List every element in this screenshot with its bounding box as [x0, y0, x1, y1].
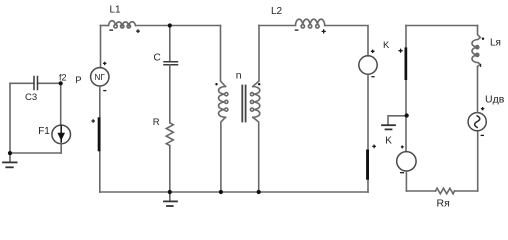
plus NG	[103, 62, 106, 65]
transformer core	[242, 86, 245, 122]
source K (circuit3)	[397, 152, 416, 171]
plus K2	[371, 49, 375, 53]
current source F1	[52, 125, 71, 144]
svg-text:Rя: Rя	[437, 197, 450, 209]
bar (selected wire) circuit2	[366, 150, 369, 180]
node transformer right bottom	[257, 190, 261, 194]
resistor Rya	[436, 188, 455, 194]
svg-text:n: n	[236, 70, 242, 82]
wire C branch upper	[169, 26, 171, 62]
circuit3 left side wire	[405, 26, 407, 152]
resistor R	[166, 123, 173, 146]
transformer right stub	[253, 26, 259, 87]
svg-text:C3: C3	[25, 92, 37, 103]
wire NG to bar	[99, 86, 101, 192]
node bottom ground	[168, 190, 172, 194]
svg-text:K: K	[383, 40, 390, 51]
inductor Lya	[472, 26, 480, 67]
ground (left loop)	[9, 153, 11, 162]
wire under K to bottom	[405, 171, 407, 191]
minus K3	[400, 172, 404, 174]
svg-text:P: P	[75, 75, 81, 86]
source K (circuit2)	[359, 56, 377, 74]
circuit3 bottom wire left part	[406, 190, 435, 192]
wire circuit2 top lead	[259, 25, 296, 27]
generator NG	[91, 68, 109, 86]
wire L2 to right corner	[325, 26, 368, 56]
svg-text:Uдв: Uдв	[485, 93, 505, 105]
bottom bus	[100, 191, 368, 193]
plus bar1	[91, 119, 95, 123]
wire circuit1 left branch	[100, 26, 102, 68]
wire F1 to bottom	[60, 144, 62, 153]
polarity +/- marks	[91, 29, 484, 173]
ground branch (circuit3)	[388, 116, 407, 125]
polarity dot Lya	[482, 38, 484, 40]
wire left loop left side	[9, 83, 11, 153]
plus Udv	[481, 107, 484, 110]
svg-text:f2: f2	[59, 72, 67, 82]
plus L2	[322, 29, 326, 33]
node ground left	[8, 151, 12, 155]
plus bar3	[399, 49, 403, 53]
svg-text:NГ: NГ	[95, 73, 106, 82]
bar (selected wire) on NG branch	[98, 117, 101, 151]
transformer left bottom stub	[221, 117, 226, 192]
circuit3 right side lower wire	[477, 131, 479, 191]
svg-text:K: K	[385, 136, 392, 147]
ground (center)	[169, 192, 171, 201]
bar (selected wire) circuit3	[405, 47, 408, 80]
node f2	[59, 81, 63, 85]
circuit3 top wire	[406, 25, 478, 27]
plus bar2	[372, 145, 376, 149]
wire L1 to transformer	[136, 25, 221, 27]
wire f2 to F1	[60, 83, 62, 125]
transformer left winding	[219, 87, 226, 118]
wire C to R	[169, 65, 171, 123]
polarity tick Lya bottom	[480, 64, 482, 67]
wire left loop top	[10, 82, 61, 84]
capacitor C	[164, 62, 178, 65]
minus L2	[295, 29, 299, 31]
transformer right bottom stub	[253, 117, 259, 192]
wire R to bottom	[169, 146, 171, 192]
svg-text:C: C	[154, 53, 161, 64]
transformer right winding	[253, 87, 260, 118]
circuit3 bottom wire right part	[455, 190, 478, 192]
wire left loop bottom	[10, 152, 61, 154]
node transformer left bottom	[219, 190, 223, 194]
polarity dot transformer right	[258, 83, 260, 85]
wire circuit1 top lead	[101, 25, 109, 27]
plus K3	[401, 145, 404, 148]
minus Udv	[481, 134, 484, 136]
svg-text:L1: L1	[110, 5, 122, 16]
inductor L1	[109, 21, 136, 26]
svg-text:R: R	[153, 117, 160, 128]
source Udv	[468, 113, 486, 131]
transformer left stub	[221, 26, 226, 87]
svg-text:F1: F1	[38, 126, 50, 137]
polarity dot transformer left	[215, 83, 217, 85]
svg-text:Lя: Lя	[490, 38, 501, 49]
node circuit3 ground	[405, 113, 409, 117]
plus L1	[136, 29, 140, 33]
inductor L2	[296, 19, 325, 25]
wire under source K	[367, 74, 369, 192]
minus L1	[109, 29, 113, 31]
minus NG	[103, 90, 106, 92]
sine glyph in Udv	[475, 116, 480, 128]
svg-text:L2: L2	[271, 6, 283, 17]
node top C	[168, 23, 172, 27]
wire above Udv circle	[477, 67, 479, 113]
minus K2	[371, 76, 374, 78]
capacitor C3	[34, 77, 38, 90]
